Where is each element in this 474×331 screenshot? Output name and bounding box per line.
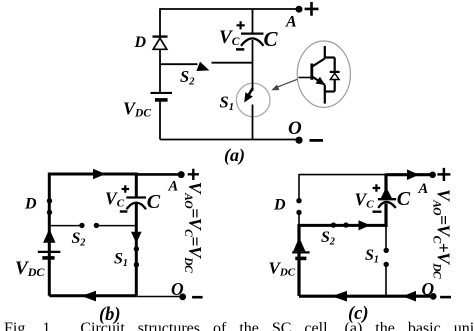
label (a)	[224, 145, 245, 166]
IGBT collector lead	[324, 46, 326, 59]
label VDC (a)	[123, 99, 151, 120]
svg-text:C: C	[397, 188, 411, 210]
svg-text:C: C	[264, 27, 279, 51]
wire: (c) left vertical thin upper	[298, 174, 300, 199]
svg-text:A: A	[168, 178, 179, 194]
current arrow on (b) left vertical	[43, 229, 55, 243]
svg-text:O: O	[171, 279, 184, 299]
svg-text:D: D	[273, 196, 286, 213]
label S1 (b)	[114, 251, 128, 270]
current arrow on (b) top rail	[93, 169, 106, 179]
label S1 (c)	[365, 247, 379, 266]
plus terminal at A (c)	[437, 168, 450, 181]
svg-text:A: A	[418, 181, 429, 197]
IGBT collector diagonal	[313, 59, 325, 67]
IGBT gate bar	[310, 64, 313, 80]
label O (a)	[288, 118, 302, 139]
wire: (a) capacitor branch top	[252, 9, 254, 33]
current arrow on (b) bottom rail	[81, 291, 96, 302]
node O (a)	[295, 137, 302, 144]
diode D contacts (b)	[47, 198, 52, 215]
capacitor C (c)	[378, 199, 396, 208]
wire: (b) top rail thick	[49, 173, 136, 176]
svg-text:D: D	[24, 196, 37, 213]
label VC (c)	[355, 190, 375, 211]
current arrows on (c) bottom rail	[332, 291, 417, 302]
label S2 (c)	[321, 229, 335, 248]
svg-text:C: C	[147, 191, 161, 213]
capacitor C (b)	[126, 198, 146, 210]
wire: (a) left vertical upper	[159, 8, 161, 36]
wire: (c) left vertical between D and S2	[298, 214, 300, 226]
IGBT emitter diagonal with arrowhead	[313, 77, 326, 85]
svg-text:Fig. 1. Circuit structures of: Fig. 1. Circuit structures of the SC cel…	[4, 320, 474, 331]
diode D open contacts (c)	[296, 198, 301, 215]
label VDC (c)	[269, 259, 296, 279]
wire: (a) capacitor branch middle	[252, 40, 254, 91]
plus sign of capacitor (b)	[122, 185, 130, 193]
current arrow on (b) capacitor branch	[131, 232, 142, 244]
wire: (a) left vertical lower	[159, 102, 161, 140]
minus sign of capacitor (a)	[236, 48, 244, 51]
wire: (b) bottom rail thick	[49, 294, 136, 297]
wire: (c) S1 branch thin lower	[385, 266, 387, 296]
wire: IGBT top link to diode	[325, 56, 335, 58]
label D (a)	[134, 34, 147, 51]
circle around S1 (a)	[236, 83, 270, 117]
capacitor C (a)	[241, 34, 264, 46]
plus sign of capacitor (a)	[237, 21, 245, 29]
node A (a)	[296, 6, 303, 13]
plus sign of capacitor (c)	[373, 184, 381, 192]
figure caption (clipped at bottom edge)	[4, 320, 474, 331]
battery VDC (a)	[151, 93, 173, 100]
node O (b)	[179, 293, 186, 300]
equation VAO=VC=VDC (b, rotated)	[182, 182, 205, 273]
label O (b)	[171, 279, 184, 299]
label D (b)	[24, 196, 37, 213]
svg-text:A: A	[285, 14, 297, 31]
wire: IGBT bottom link to diode	[325, 90, 335, 92]
label (b)	[99, 305, 121, 325]
svg-text:(a): (a)	[224, 145, 245, 166]
svg-text:S2: S2	[321, 229, 335, 248]
svg-text:VC: VC	[355, 190, 375, 211]
minus terminal at O (b)	[192, 296, 203, 299]
label D (c)	[273, 196, 286, 213]
minus sign of capacitor (c)	[373, 210, 382, 212]
IGBT emitter lead	[324, 85, 326, 104]
switch S1 (a) arm with arrowhead	[244, 88, 253, 103]
switch S1 contacts (b)	[134, 246, 139, 267]
wire: (c) top rail thin	[299, 174, 386, 176]
antiparallel diode of IGBT	[330, 72, 340, 80]
current arrow on (c) left vertical	[293, 237, 305, 251]
diode D (a)	[153, 37, 168, 50]
label VDC (b)	[15, 258, 45, 279]
wire: (c) capacitor to S2 junction thick	[384, 204, 387, 228]
switch S2 (b) open contacts	[49, 223, 136, 228]
svg-text:VDC: VDC	[269, 259, 296, 279]
svg-text:O: O	[422, 279, 435, 299]
svg-text:VAO=VC=VDC: VAO=VC=VDC	[182, 182, 205, 273]
switch S2 (c) closed with contacts and current arrow	[299, 220, 386, 230]
svg-text:S1: S1	[220, 93, 234, 114]
battery VDC (b)	[38, 252, 61, 258]
svg-text:VC: VC	[219, 27, 240, 48]
label S2 (b)	[72, 230, 86, 249]
wire: (b) capacitor branch upper	[135, 173, 138, 197]
label A (b)	[168, 178, 179, 194]
ellipse around IGBT	[297, 41, 350, 107]
svg-text:D: D	[134, 34, 147, 51]
label (c)	[348, 304, 369, 324]
label A (a)	[285, 14, 297, 31]
wire: (a) S1 lower segment	[252, 105, 254, 140]
label A (c)	[418, 181, 429, 197]
svg-text:S1: S1	[114, 251, 128, 270]
wire: (b) top rail to node A	[136, 173, 181, 176]
wire: (b) left vertical	[48, 173, 51, 296]
wire: (c) S1 branch thin upper	[385, 227, 387, 249]
wire: (c) capacitor branch upper thick	[384, 174, 387, 199]
node A (c)	[429, 172, 436, 179]
minus sign of capacitor (b)	[120, 210, 128, 212]
switch S2 (a) left arm with arrowhead	[160, 62, 209, 71]
plus terminal at A (a)	[305, 2, 319, 16]
current arrow on (c) capacitor branch	[380, 187, 393, 200]
battery VDC (c)	[292, 252, 309, 258]
wire: IGBT antiparallel diode branch	[334, 58, 336, 92]
wire: (c) left vertical thick	[297, 224, 300, 296]
plus terminal at A (b)	[188, 169, 199, 180]
node O (c)	[430, 293, 437, 300]
IGBT gate lead	[299, 77, 312, 79]
wire: (b) bottom rail to node O	[136, 296, 182, 298]
wire: (c) top rail thick	[386, 173, 432, 176]
wire: (c) bottom rail thick	[299, 295, 433, 298]
label C (c)	[397, 188, 411, 210]
label S2 (a)	[180, 67, 195, 88]
svg-text:VDC: VDC	[123, 99, 151, 120]
svg-text:S1: S1	[365, 247, 379, 266]
wire: (a) bottom rail	[160, 139, 299, 141]
svg-text:S2: S2	[72, 230, 86, 249]
label VC (a)	[219, 27, 240, 48]
svg-text:O: O	[288, 118, 302, 139]
switch S1 open contacts (c)	[384, 248, 389, 267]
pointer arrow from ellipse to S1	[271, 79, 297, 90]
svg-text:VDC: VDC	[15, 258, 45, 279]
wire: (a) top rail	[160, 8, 299, 10]
svg-text:VAO=VC+VDC: VAO=VC+VDC	[431, 189, 454, 279]
wire: (b) capacitor branch lower with S1	[135, 204, 138, 296]
label S1 (a)	[220, 93, 234, 114]
equation VAO=VC+VDC (c, rotated)	[431, 189, 454, 279]
switch S2 (a) right segment	[212, 62, 253, 64]
label O (c)	[422, 279, 435, 299]
label C (a)	[264, 27, 279, 51]
current arrow on (c) top rail	[407, 169, 419, 180]
wire: (a) left vertical mid	[159, 50, 161, 93]
node A (b)	[178, 171, 185, 178]
minus terminal at O (a)	[310, 139, 324, 142]
svg-text:VC: VC	[105, 189, 125, 210]
label C (b)	[147, 191, 161, 213]
minus terminal at O (c)	[440, 296, 451, 299]
label VC (b)	[105, 189, 125, 210]
svg-text:S2: S2	[180, 67, 195, 88]
